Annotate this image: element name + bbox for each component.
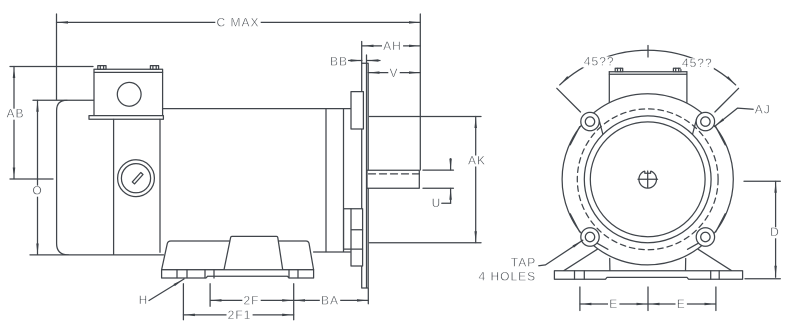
- front pilot ring inner: [590, 122, 705, 237]
- dimension 45 left arc: [560, 50, 648, 85]
- motor end cap left profile: [57, 100, 69, 255]
- svg-text:45??: 45??: [584, 54, 615, 68]
- side foot outline: [162, 241, 314, 270]
- motor end cap top edge + O top extension: [33, 99, 94, 101]
- svg-text:4 HOLES: 4 HOLES: [478, 270, 536, 284]
- dimension O: [37, 100, 39, 255]
- motor body bottom edge: [314, 251, 350, 253]
- dimension U leader: [442, 202, 451, 204]
- flange lower boss lower: [351, 249, 363, 266]
- dimension BB: [329, 57, 349, 68]
- dimension AB extension top: [10, 66, 93, 68]
- dimension E right: [648, 303, 716, 305]
- front base plate: [554, 271, 742, 280]
- dimension AK: [475, 117, 477, 243]
- side foot base plate: [162, 270, 314, 278]
- svg-text:BB: BB: [330, 55, 348, 69]
- dimension D top extension: [744, 180, 780, 182]
- svg-text:45??: 45??: [682, 56, 713, 70]
- svg-text:V: V: [389, 66, 398, 80]
- motor body top edge: [163, 108, 351, 110]
- dimension 45: top reference tick: [647, 46, 649, 58]
- conduit box hole: [117, 82, 141, 106]
- radial extension line upper-left ear: [557, 88, 581, 112]
- front outer circle (body OD): [562, 94, 733, 265]
- dimension AH: [362, 45, 420, 47]
- dimension D: [775, 181, 777, 277]
- dimension 2F: [210, 299, 294, 301]
- radial extension line upper-right ear: [715, 88, 739, 112]
- motor bottom edge + O bottom extension: [30, 254, 164, 256]
- side foot hump: [224, 236, 283, 269]
- front bolt circle (dashed): [577, 109, 718, 250]
- dimension AB extension bottom (centerline tick): [10, 178, 53, 180]
- svg-text:U: U: [432, 196, 442, 210]
- svg-text:H: H: [139, 293, 149, 307]
- front ear upper-left: [570, 112, 603, 144]
- dimension 2F1: [183, 314, 293, 316]
- dimension AK top extension: [369, 116, 481, 118]
- extension line below flange for BA: [367, 289, 369, 304]
- svg-text:AK: AK: [468, 153, 486, 167]
- svg-text:E: E: [677, 297, 686, 311]
- front box screw tabs: [615, 68, 623, 72]
- dimension BA: [294, 299, 369, 301]
- svg-text:O: O: [32, 184, 42, 198]
- dimension 45 right arc: [648, 50, 736, 85]
- front pilot ring outer: [584, 116, 711, 243]
- svg-text:E: E: [609, 297, 618, 311]
- shaft keyway hidden line: [369, 173, 420, 175]
- front conduit box: [608, 72, 610, 104]
- brush housing left edge: [113, 119, 115, 255]
- dimension D bottom extension: [745, 278, 780, 280]
- extension above flange for AH: [361, 42, 363, 64]
- svg-text:2F: 2F: [243, 294, 259, 308]
- dimension E left: [580, 303, 648, 305]
- motor body seam: [325, 109, 327, 252]
- svg-text:AB: AB: [6, 107, 24, 121]
- flange lower boss inner lines: [351, 229, 363, 231]
- front shaft circle: [639, 171, 657, 189]
- front base pad marks: [574, 271, 576, 280]
- E extension lines: [579, 287, 581, 311]
- brush cap slot: [132, 173, 143, 184]
- conduit box bottom lip: [89, 116, 163, 120]
- dimension C MAX: [57, 21, 421, 23]
- front ear lower-right: [688, 214, 726, 250]
- svg-text:AH: AH: [383, 39, 402, 53]
- svg-text:2F1: 2F1: [228, 308, 252, 322]
- dimension U arrows: [450, 159, 452, 171]
- flange lower boss outer: [344, 209, 363, 249]
- dimension AB: [13, 67, 15, 180]
- brush housing right edge: [159, 119, 161, 252]
- conduit box lid line: [94, 71, 163, 73]
- front gusset left: [564, 249, 610, 271]
- svg-text:C MAX: C MAX: [216, 16, 259, 30]
- svg-text:TAP: TAP: [511, 256, 536, 270]
- wire: C MAX left extension line: [56, 14, 58, 100]
- flange upper boss: [351, 92, 363, 129]
- side foot pad marks: [176, 270, 178, 278]
- dimension U top extension: [423, 169, 453, 171]
- extension lines below foot: [182, 284, 184, 320]
- svg-text:AJ: AJ: [755, 103, 771, 117]
- conduit box screw tab right: [150, 66, 158, 70]
- svg-text:BA: BA: [321, 294, 339, 308]
- front shaft keyway: [645, 170, 651, 174]
- conduit box body: [94, 69, 163, 115]
- front ear lower-left: [570, 214, 608, 250]
- conduit box screw tab left: [98, 66, 106, 70]
- motor end bracket edge: [343, 109, 345, 252]
- brush cap outer circle: [118, 160, 155, 197]
- brush cap inner circle: [121, 164, 150, 193]
- flange plate inner line: [366, 63, 368, 288]
- front ear upper-right: [693, 112, 726, 144]
- front gusset right: [686, 249, 732, 271]
- svg-text:D: D: [770, 225, 780, 239]
- front shaft crosshair: [638, 178, 658, 180]
- dimension V: [368, 72, 420, 74]
- wire: C MAX right extension line: [419, 14, 421, 170]
- flange plate: [362, 63, 369, 288]
- shaft: [367, 170, 419, 188]
- dimension U bottom extension: [423, 187, 453, 189]
- dimension AK bottom extension: [369, 242, 481, 244]
